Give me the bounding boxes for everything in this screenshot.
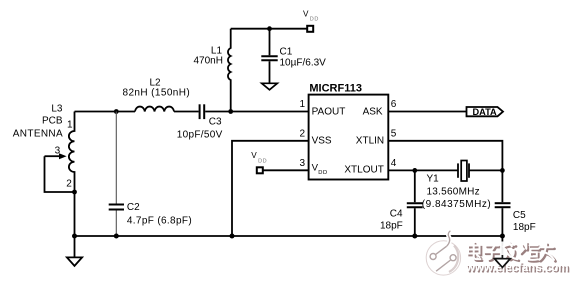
wire top rail VDD	[231, 28, 308, 30]
IC U1 MICRF113 box	[309, 95, 389, 180]
svg-text:2: 2	[66, 178, 72, 189]
svg-text:C2: C2	[127, 202, 140, 213]
node rail C2 junction	[114, 234, 119, 239]
svg-text:C5: C5	[513, 210, 526, 221]
svg-text:13.560MHz: 13.560MHz	[427, 186, 480, 197]
svg-text:6: 6	[391, 99, 397, 110]
wire C1 to ground	[269, 61, 271, 83]
svg-text:18pF: 18pF	[380, 220, 403, 231]
svg-text:C1: C1	[280, 46, 293, 57]
node antenna pin2 junction	[72, 190, 77, 195]
svg-text:2: 2	[300, 128, 306, 139]
svg-text:MICRF113: MICRF113	[309, 82, 362, 94]
svg-text:Y1: Y1	[427, 174, 440, 185]
wire pin4 XTLOUT to crystal	[388, 169, 458, 171]
svg-text:18pF: 18pF	[513, 222, 536, 233]
antenna tap arrow pin 3	[45, 155, 61, 157]
svg-text:PCB: PCB	[42, 115, 63, 126]
ground (bottom right)	[501, 236, 503, 259]
node antenna/L2/C2 junction	[114, 109, 119, 114]
node XTLIN/C5 junction	[500, 168, 505, 173]
svg-text:V: V	[303, 9, 309, 18]
inductor L1	[228, 29, 231, 112]
wire C3 to pin1 PAOUT	[205, 111, 308, 113]
svg-text:DATA: DATA	[473, 107, 498, 117]
wire pin5 XTLIN	[388, 141, 502, 171]
svg-text:ANTENNA: ANTENNA	[13, 129, 63, 140]
node rail C4 junction	[412, 234, 417, 239]
crystal Y1	[458, 161, 469, 182]
svg-text:V: V	[251, 151, 257, 160]
svg-text:C4: C4	[390, 209, 403, 220]
svg-text:DD: DD	[310, 17, 319, 23]
svg-text:DD: DD	[258, 158, 267, 164]
capacitor C1	[261, 56, 277, 60]
wire C1 branch	[269, 29, 271, 56]
wire C5 stem upper	[501, 170, 503, 202]
svg-text:5: 5	[391, 128, 397, 139]
svg-text:ASK: ASK	[363, 107, 383, 118]
svg-text:DD: DD	[318, 170, 327, 176]
svg-text:3: 3	[55, 145, 61, 156]
svg-text:1: 1	[300, 99, 306, 110]
svg-text:L3: L3	[51, 103, 63, 114]
svg-text:10pF/50V: 10pF/50V	[177, 129, 223, 140]
svg-text:4: 4	[391, 158, 397, 169]
capacitor C2	[109, 205, 124, 210]
node top rail junction	[267, 26, 272, 31]
wire C2 stem lower	[115, 211, 117, 237]
watermark url www.elecfans.com	[465, 262, 570, 276]
svg-text:(9.84375MHz): (9.84375MHz)	[422, 199, 491, 210]
svg-text:PAOUT: PAOUT	[312, 107, 346, 118]
svg-text:470nH: 470nH	[194, 55, 223, 66]
svg-text:10µF/6.3V: 10µF/6.3V	[280, 57, 327, 68]
ground (bottom left)	[74, 236, 76, 257]
capacitor C4	[407, 203, 423, 207]
svg-text:C3: C3	[209, 117, 222, 128]
capacitor C5	[495, 203, 511, 207]
power VDD terminal (pin3)	[257, 167, 263, 173]
svg-text:3: 3	[300, 158, 306, 169]
wire crystal to right node	[469, 169, 502, 171]
wire main RF row: antenna to L2	[75, 111, 136, 113]
wire tap return	[45, 156, 75, 192]
node C3/L1/PAOUT junction	[228, 109, 233, 114]
capacitor C3	[200, 104, 205, 119]
watermark logo elecfans	[426, 231, 460, 275]
wire pin2 VSS	[232, 141, 309, 236]
node rail VSS junction	[230, 234, 235, 239]
wire pin6 ASK to DATA	[388, 111, 466, 113]
svg-text:82nH (150nH): 82nH (150nH)	[123, 88, 191, 99]
ground (bottom right, redrawn above watermark)	[495, 259, 511, 268]
node XTLOUT/C4 junction	[412, 168, 417, 173]
svg-text:4.7pF (6.8pF): 4.7pF (6.8pF)	[127, 216, 192, 227]
svg-text:XTLIN: XTLIN	[356, 135, 384, 146]
wire C2 stem upper	[115, 112, 117, 204]
wire C5 stem lower	[501, 208, 503, 236]
wire pin3 VDD	[263, 169, 309, 171]
node rail C5 junction	[500, 234, 505, 239]
power VDD terminal (top)	[307, 26, 313, 32]
wire stub above right ground	[501, 255, 503, 259]
wire L2 to C3	[174, 111, 199, 113]
svg-text:VSS: VSS	[312, 135, 332, 146]
watermark CJK text dian zi fa shao you	[468, 243, 556, 262]
ground (under C1)	[262, 83, 278, 90]
watermark stroke covering right ground stem	[500, 242, 505, 258]
schematic text labels	[13, 9, 536, 233]
node rail antenna junction	[72, 234, 77, 239]
svg-text:XTLOUT: XTLOUT	[344, 164, 383, 175]
antenna L3 coil	[69, 112, 75, 237]
DATA tag	[467, 107, 504, 116]
wire C4 stem upper	[414, 170, 416, 202]
svg-text:1: 1	[67, 120, 73, 131]
wire bottom ground rail	[75, 235, 503, 237]
svg-text:www.elecfans.com: www.elecfans.com	[465, 262, 568, 274]
inductor L2	[135, 107, 174, 112]
wire C4 stem lower	[414, 208, 416, 236]
